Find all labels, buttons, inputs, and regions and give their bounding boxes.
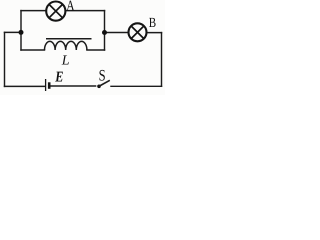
- node A (left junction): [19, 30, 24, 35]
- wire switch to right corner: [111, 85, 162, 87]
- wire bottom branch left (to inductor): [21, 49, 45, 51]
- wire outer right vertical: [161, 33, 163, 87]
- svg-text:E: E: [54, 69, 63, 85]
- wire outer left vertical: [4, 32, 6, 86]
- battery E plate long: [45, 79, 47, 91]
- node B (right junction): [102, 30, 107, 35]
- inductor L coil: [45, 41, 87, 50]
- wire right inner vertical: [104, 11, 106, 50]
- lamp A: [46, 2, 65, 21]
- svg-text:A: A: [66, 0, 75, 14]
- wire bottom branch right (inductor to corner): [87, 49, 105, 51]
- lamp B: [129, 23, 147, 41]
- wire right corner to lamp B: [146, 32, 161, 34]
- wire battery to switch: [50, 85, 95, 87]
- inductor L core bar: [46, 38, 92, 40]
- wire left inner vertical: [20, 11, 22, 50]
- switch S pivot dot: [97, 85, 101, 89]
- svg-text:S: S: [99, 67, 106, 84]
- wire top-right (lamp A to right corner): [66, 10, 105, 12]
- switch S blade: [99, 80, 110, 86]
- svg-text:B: B: [149, 16, 156, 31]
- battery E plate short: [48, 82, 51, 89]
- wire bottom left (to battery): [5, 85, 45, 87]
- wire top-left (node to lamp A): [21, 10, 46, 12]
- wire lamp B to node B: [105, 32, 129, 34]
- svg-text:L: L: [61, 53, 70, 68]
- wire node A to outer left: [5, 31, 22, 33]
